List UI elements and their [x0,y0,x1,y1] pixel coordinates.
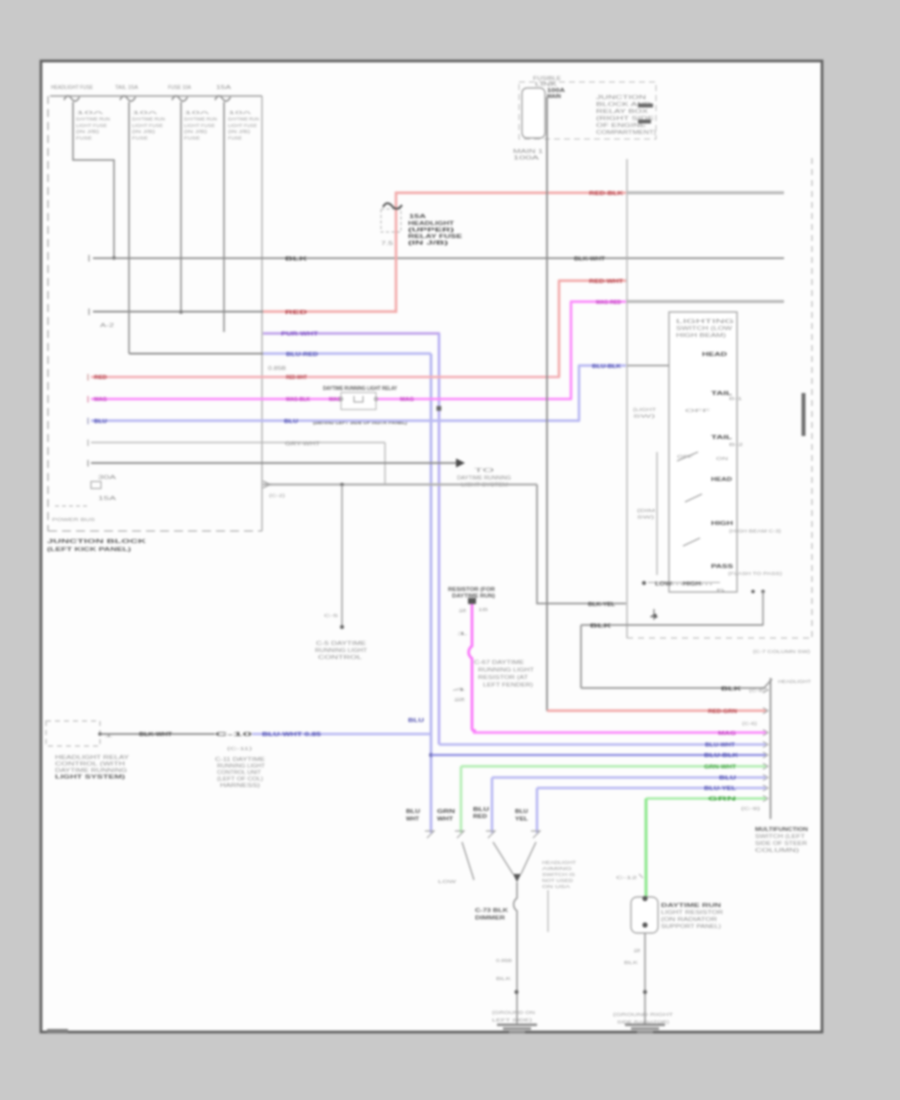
svg-text:BLK: BLK [496,976,511,981]
wire from fuse F2 [128,102,130,354]
svg-text:SW): SW) [633,414,656,419]
svg-text:(IN J/B): (IN J/B) [408,241,448,247]
svg-text:BLK-WHT: BLK-WHT [574,256,606,262]
svg-text:FUSE 10A: FUSE 10A [168,85,192,91]
svg-text:15A: 15A [98,496,117,502]
ground G1 label [492,1010,535,1023]
wire W6 magenta vertical x571 [570,302,573,399]
green vertical x646 [645,799,648,898]
svg-text:TAIL 15A: TAIL 15A [115,85,139,91]
svg-text:10A: 10A [228,110,251,115]
svg-text:HEADLIGHT: HEADLIGHT [542,860,576,865]
passing control label left [55,755,130,781]
column switch connector label [753,649,811,654]
svg-text:RED-WHT: RED-WHT [589,279,624,285]
inline connector on wire y734 [215,732,253,751]
switch contact row B [711,391,743,401]
svg-text:(FLASH TO PASS): (FLASH TO PASS) [728,571,783,576]
ground splice dot x645 [643,990,647,994]
svg-text:MAG: MAG [400,397,414,403]
dimmer switch pin P2 [455,831,464,838]
svg-text:BLU: BLU [719,776,736,782]
svg-text:MAIN: MAIN [547,94,561,100]
wire W5 red vertical x559 [558,281,561,377]
svg-text:HEADLIGHT: HEADLIGHT [408,221,455,227]
lighting switch title [676,319,734,339]
wire from fuse F1 [73,102,114,258]
svg-text:10A: 10A [76,110,103,115]
svg-text:BLU-YEL: BLU-YEL [704,786,737,792]
svg-text:RED-WHT: RED-WHT [286,375,308,381]
wire y625 [581,623,763,629]
svg-text:(LIGHT: (LIGHT [633,407,656,412]
wire green vertical x461 [460,766,463,833]
svg-text:FUSE: FUSE [184,136,200,141]
svg-text:BLU: BLU [94,419,107,425]
svg-text:(GROUND RIGHT: (GROUND RIGHT [613,1012,673,1017]
pin P3 label [473,807,489,820]
wire from fuse F3 [180,102,182,312]
wire W7 blue vertical x579 [578,366,581,421]
magenta vertical x472 [469,604,476,731]
ground symbol G1 [497,1024,537,1034]
DRL resistor 2 body [631,896,658,933]
svg-text:SW): SW) [637,515,655,520]
svg-text:LIGHTING: LIGHTING [676,319,734,325]
junction dot W10 x342 [340,483,344,487]
daytime running light relay label bottom [313,420,407,426]
svg-text:TO: TO [474,468,494,474]
svg-text:BLU-RED: BLU-RED [286,352,318,358]
svg-text:(C-9): (C-9) [741,806,761,811]
wire blue vertical x492 [491,778,494,834]
engine compartment dashed box [519,82,656,139]
stub wire x342 down to connector [324,485,342,627]
column switch vertical label bar [802,393,806,436]
svg-text:C-5: C-5 [324,613,339,618]
relay box description label [596,95,656,136]
svg-text:OFF: OFF [677,454,693,459]
green wire connector label [616,874,643,880]
svg-text:BLU-WHT 0.85: BLU-WHT 0.85 [262,732,321,738]
svg-text:ON USA: ON USA [542,884,570,889]
svg-text:LIGHT FUSE: LIGHT FUSE [184,123,215,128]
daytime running light relay label top [323,386,398,392]
junction dot navy branch x431 y755 [429,753,433,757]
wire blue y734 to dimmer vertical [252,732,431,738]
svg-text:HIGH: HIGH [711,521,733,527]
svg-text:RESISTOR (FOR: RESISTOR (FOR [448,587,495,593]
svg-text:10A: 10A [184,110,209,115]
switch contact row H [711,521,782,534]
wire navy y755 to multifunction connector [431,753,766,759]
junction dot fuse F3 / wire W2 [179,310,183,314]
svg-text:GRN-WHT: GRN-WHT [704,765,737,771]
svg-text:LIGHT FUSE: LIGHT FUSE [76,123,107,128]
switch contact row D [711,435,744,447]
svg-text:HARNESS): HARNESS) [220,783,261,789]
svg-text:B-2: B-2 [729,442,744,447]
svg-text:ON: ON [716,456,728,461]
wire black y734 [100,732,215,738]
svg-text:BLK: BLK [721,686,741,692]
wire W7 blue y365 [578,364,626,370]
svg-text:(C-2): (C-2) [269,493,286,498]
wire W8 vertical drop x385 [384,443,386,485]
svg-text:WHT: WHT [437,817,454,823]
svg-text:0.85B: 0.85B [268,366,287,372]
svg-text:SIDE OF STEER: SIDE OF STEER [755,841,808,847]
svg-text:BLK-YEL: BLK-YEL [588,602,616,608]
dimmer switch pin P3 [486,831,495,838]
wire W5 pink y377 [88,374,560,381]
multifunction connector pin marks [763,687,768,802]
fuse F3 description label [184,110,217,141]
wire green y798 to DRL resistor [646,797,766,811]
svg-text:CONTROL (WITH: CONTROL (WITH [55,762,126,768]
svg-text:GRY-WHT: GRY-WHT [285,442,320,448]
dimmer switch pin P4 [531,831,540,838]
relay box bottom label [513,149,543,162]
svg-text:C-11 DAYTIME: C-11 DAYTIME [215,757,266,763]
wire W6 magenta y399 [88,396,572,403]
svg-text:OF ENGINE: OF ENGINE [596,123,647,129]
wire red y710 battery feed to connector [547,709,766,726]
lighting switch side label [633,407,656,419]
wire W5 red y280 [558,279,626,285]
switch blade row I [683,538,700,546]
junction block label [47,539,147,553]
wire W4 blue y353 [263,352,431,372]
switch position label HEAD [702,352,727,358]
svg-text:A-2: A-2 [100,323,114,329]
svg-text:(HIGH BEAM C-3): (HIGH BEAM C-3) [729,529,782,534]
wire W7 gray segment to lighting switch terminal [627,364,704,368]
switch contact row J [711,564,783,576]
svg-text:RELAY BOX: RELAY BOX [596,109,649,115]
circuit breaker symbol [91,475,117,502]
dimmer switch side label [637,508,655,520]
svg-text:HEADLIGHT: HEADLIGHT [778,679,811,684]
switch blade row G [685,494,702,502]
switch internal dotted row [648,582,720,588]
svg-text:RUNNING LIGHT: RUNNING LIGHT [478,668,534,674]
svg-text:RESISTOR (AT: RESISTOR (AT [478,675,528,681]
svg-text:LOW: LOW [438,879,457,884]
svg-text:BLU: BLU [406,809,420,815]
wire W10 black y484 [263,481,537,498]
dimmer blades converging from P3 P4 [493,842,536,882]
connector mark on vertical x439 [437,406,442,411]
wire W9 black y463 with arrow [88,459,465,468]
fuse F1 description label [76,110,110,141]
svg-text:(C-11): (C-11) [227,746,253,751]
switch internal junction dot [642,581,646,585]
wire W4 color label near dimmer switch [408,718,424,724]
svg-text:(GROUND ON: (GROUND ON [492,1010,535,1015]
svg-text:MAG-BLK: MAG-BLK [286,397,310,403]
svg-text:RELAY FUSE: RELAY FUSE [408,234,463,240]
svg-text:LEFT SIDE): LEFT SIDE) [492,1018,533,1023]
svg-text:BLU-BLK: BLU-BLK [592,364,621,370]
svg-text:MAG-RED: MAG-RED [596,300,621,306]
wire W2 gray segment inside column switch [627,191,784,194]
svg-text:DAYTIME RUN: DAYTIME RUN [661,903,722,909]
svg-text:100A: 100A [513,156,540,162]
svg-text:CONTROL UNIT: CONTROL UNIT [217,770,261,776]
svg-text:1B: 1B [478,607,488,612]
svg-text:PASS: PASS [711,564,733,570]
daytime running light relay [339,393,377,410]
svg-text:LIGHT FUSE: LIGHT FUSE [132,123,163,128]
svg-text:(C-6): (C-6) [742,721,758,726]
svg-text:LIGHT FUSE: LIGHT FUSE [228,123,257,128]
svg-text:JUNCTION: JUNCTION [596,95,647,101]
column switch dashed outline [627,158,812,638]
svg-text:LIGHT RESISTOR: LIGHT RESISTOR [661,910,724,916]
switch blade row E [677,452,728,461]
svg-text:DAYTIME RUNNING LIGHT RELAY: DAYTIME RUNNING LIGHT RELAY [323,386,398,392]
svg-text:(UPPER): (UPPER) [408,228,454,234]
svg-text:BLK: BLK [624,960,638,965]
svg-text:10A: 10A [132,110,157,115]
svg-text:(C-7 COLUMN SW): (C-7 COLUMN SW) [753,649,811,654]
svg-text:B-1: B-1 [729,396,743,401]
magenta vertical labels [452,631,470,702]
svg-text:HEAD: HEAD [702,352,727,358]
svg-text:FUSE: FUSE [76,136,92,141]
svg-text:RED: RED [473,814,487,820]
svg-text:(IN J/B): (IN J/B) [132,129,156,134]
svg-text:(LEFT KICK PANEL): (LEFT KICK PANEL) [47,547,132,553]
svg-text:SUPPORT PANEL): SUPPORT PANEL) [661,924,721,930]
svg-text:(C-8): (C-8) [749,688,766,693]
svg-text:BLK: BLK [285,256,307,262]
fuse F3 [168,85,192,101]
svg-text:(ON RADIATOR: (ON RADIATOR [661,917,718,923]
multifunction connector label [755,827,809,854]
svg-text:SWITCH IS: SWITCH IS [542,872,575,877]
svg-text:LOW- - -HIGH- - -: LOW- - -HIGH- - - [655,582,712,588]
svg-text:(IN J/B): (IN J/B) [184,129,208,134]
fuse F2 description label [132,110,165,141]
svg-text:15A: 15A [409,214,426,220]
svg-text:C-10: C-10 [215,732,253,738]
reference box pin [98,732,115,738]
power source reference dashed box [46,721,100,746]
switch internal bus vertical x657 [656,452,658,575]
headlight note leader line [547,890,549,932]
wire magenta y732 from DRL resistor [473,731,766,737]
svg-text:MULTIFUNCTION: MULTIFUNCTION [755,827,809,833]
svg-text:C-12: C-12 [616,875,638,880]
pin P4 label [515,809,529,823]
fuse F1 [51,85,94,101]
svg-text:(IN J/B): (IN J/B) [228,129,251,134]
DRL resistor terminal [458,598,488,613]
wire W10 corner to y604 [537,485,626,604]
svg-text:FUSE: FUSE [228,136,242,141]
svg-text:SWITCH (LEFT: SWITCH (LEFT [755,834,805,840]
ground wire 2 labels [624,948,643,965]
svg-text:BLK: BLK [590,623,611,629]
svg-text:0.85B: 0.85B [496,958,512,963]
internal dashed divider [55,505,90,507]
page border frame [41,61,822,1032]
wire blue y788 [537,786,766,792]
wire W10 color label y604 [588,602,616,608]
svg-text:COLUMN): COLUMN) [755,848,800,854]
ground splice dot x517 [515,990,519,994]
wire W8 gray y442 [88,440,385,448]
svg-text:DAYTIME RUNNING: DAYTIME RUNNING [457,476,511,482]
junction dot fuse F1 / wire W1 [112,256,116,260]
svg-text:FUSE: FUSE [132,136,148,141]
svg-text:BLK-WHT: BLK-WHT [139,732,173,738]
svg-text:DAYTIME RUN: DAYTIME RUN [184,116,217,121]
connector dot x342 y627 [340,625,344,629]
wire W3 purple y333 [263,332,440,338]
svg-text:MAG: MAG [94,397,107,403]
svg-text:(IN J/B): (IN J/B) [76,129,100,134]
svg-text:HEADLIGHT RELAY: HEADLIGHT RELAY [55,755,130,761]
wire W9 destination label [457,468,511,489]
wire from fuse F4 [223,102,225,332]
svg-text:BLU-WHT: BLU-WHT [705,743,736,749]
svg-text:JUNCTION BLOCK: JUNCTION BLOCK [47,539,147,545]
svg-text:YEL: YEL [515,817,529,823]
battery feed vertical x547 [546,97,548,711]
svg-text:RED: RED [94,375,107,381]
svg-text:GRN: GRN [437,809,455,815]
svg-text:RED: RED [285,310,307,316]
svg-text:30A: 30A [98,475,117,481]
DRL resistor 2 label [661,903,724,930]
page corner mark [47,1029,68,1034]
switch bottom pin dots [716,588,765,593]
fuse F4 description label [228,110,259,141]
svg-text:WHT: WHT [406,817,420,823]
svg-text:(LEFT OF COL): (LEFT OF COL) [217,777,263,783]
svg-text:C-73 BLK: C-73 BLK [475,908,509,914]
svg-text:RUNNING LIGHT: RUNNING LIGHT [217,764,265,770]
svg-text:DAYTIME RUNNING: DAYTIME RUNNING [55,768,127,774]
inline fuse on red wire [381,203,402,247]
dimmer blade from P2 [438,842,474,884]
svg-text:HEADLIGHT FUSE: HEADLIGHT FUSE [51,85,94,91]
ground wire x645 [644,933,646,1024]
connector C-11 label block [215,757,266,789]
svg-text:POWER BUS: POWER BUS [52,517,95,522]
wire W2 red ignition feed [89,191,626,329]
headlight note label [542,860,576,889]
svg-text:SWITCH (LOW: SWITCH (LOW [676,326,732,332]
svg-text:RED-GRN: RED-GRN [708,709,737,715]
svg-text:DAYTIME RUN: DAYTIME RUN [76,116,110,121]
pin P2 label [437,809,455,823]
wire from switch bottom x763 [762,592,764,626]
wire left loop x581 [580,625,582,688]
fuse F2 [115,85,139,101]
svg-text:DIMMER: DIMMER [475,916,506,922]
wire W3 blue-violet vertical x439 [438,333,441,744]
svg-text:MAIN 1: MAIN 1 [513,149,543,155]
svg-text:AIMING: AIMING [542,866,573,871]
svg-text:BLU: BLU [473,807,489,813]
fuse F4 [215,85,232,101]
wire W3 blue y741 to multifunction connector [439,743,766,749]
svg-text:LEFT FENDER): LEFT FENDER) [483,683,533,689]
wire W4 internal segment from fuse F2 [129,353,263,355]
svg-text:C-67 DAYTIME: C-67 DAYTIME [474,660,525,666]
ground wire x517 [514,882,517,1024]
svg-text:BLU-BLK: BLU-BLK [704,753,738,759]
svg-text:(DIM: (DIM [637,508,655,513]
svg-text:BLU: BLU [284,419,298,425]
junction block dashed outline [48,96,262,531]
svg-text:PUR-WHT: PUR-WHT [281,332,319,338]
svg-text:RUNNING LIGHT: RUNNING LIGHT [315,648,367,654]
wire W6 gray segment inside column switch [627,300,784,303]
ground wire label [475,908,509,922]
multifunction connector body [771,678,812,819]
svg-text:NOT USED: NOT USED [542,878,574,883]
ground wire gauge labels [496,958,512,981]
svg-text:C-5 DAYTIME: C-5 DAYTIME [316,641,367,647]
svg-text:HEAD: HEAD [711,477,732,483]
wire W1 black y258 [89,255,784,262]
svg-text:15A: 15A [216,85,232,91]
ground symbol G2 [625,1024,665,1034]
wire blue y777 [492,776,766,782]
wire green y766 [461,765,766,771]
fusible link symbol [522,76,562,138]
wire W6 magenta y301 [570,300,626,306]
svg-text:DAYTIME RUN: DAYTIME RUN [132,116,165,121]
dimmer switch pin P1 [425,831,434,838]
wire W4 blue vertical x431 [430,354,433,833]
svg-text:GRN: GRN [708,797,736,803]
switch contact row C marks [685,408,711,413]
svg-text:COMPARTMENT): COMPARTMENT) [596,130,656,136]
wire blue vertical x537 [536,788,539,833]
svg-text:DAYTIME RUN: DAYTIME RUN [228,116,259,121]
switch contact row F [711,477,732,483]
svg-text:BLU: BLU [515,809,528,815]
connector label below dot [315,641,367,661]
svg-text:OFF: OFF [685,408,711,413]
fusible link amp label [547,88,565,100]
internal divider label [52,517,95,522]
svg-text:TAIL: TAIL [711,435,733,441]
svg-text:BLU: BLU [408,718,424,724]
pin P1 label [406,809,420,823]
lighting switch box [669,312,737,592]
svg-text:LIGHT SYSTEM): LIGHT SYSTEM) [55,775,126,781]
wire y688 to multifunction connector [581,679,772,693]
svg-text:7.5: 7.5 [381,241,393,247]
svg-text:CONTROL: CONTROL [318,655,362,661]
pin mark 4 on wire y625 [650,609,660,620]
DRL connector label [474,660,534,689]
inline fuse description label [408,214,463,247]
svg-text:RED-BLK: RED-BLK [589,191,623,197]
ground G2 label [613,1012,673,1025]
svg-text:MAG: MAG [718,731,736,737]
svg-text:HIGH BEAM): HIGH BEAM) [676,333,727,339]
DRL resistor label [448,587,495,600]
wire W7 blue y421 [88,418,580,425]
